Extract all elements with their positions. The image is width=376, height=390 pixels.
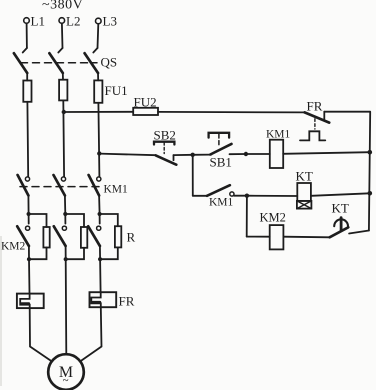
wire SB2 to node <box>174 154 193 156</box>
coil KM2 <box>270 225 284 249</box>
pushbutton SB1 <box>209 133 232 155</box>
wire KT contact to rail corner <box>349 231 369 234</box>
wire SB1 to node <box>230 153 246 155</box>
node rail row B <box>368 150 373 155</box>
svg-text:FR: FR <box>119 294 135 309</box>
coil KM1 <box>270 140 283 168</box>
wire FR3 to motor <box>80 307 102 361</box>
svg-text:FU1: FU1 <box>105 83 128 98</box>
wire middle phase through <box>65 259 68 354</box>
switch QS pole 2 <box>49 48 62 73</box>
QS linkage dashed <box>21 62 98 64</box>
wire node to KT coil <box>247 195 297 197</box>
wire KM2 coil to KT contact <box>283 236 329 239</box>
scan edge shading <box>0 236 2 386</box>
wire self-hold branch down <box>192 155 194 196</box>
wire right rail <box>369 112 370 231</box>
fuse FU1 pole 3 <box>94 80 102 102</box>
wire KM2-1 to rejoin <box>28 246 30 259</box>
wire FR to rail <box>324 111 370 113</box>
resistor branch 3 <box>100 214 122 259</box>
wire rejoin3 to FR heater <box>99 259 102 292</box>
svg-text:L1: L1 <box>31 13 45 28</box>
node rail row C <box>368 191 373 196</box>
wire KM1 coil to rail <box>283 152 370 154</box>
node L2 control tap <box>62 110 66 114</box>
contact FR normally closed <box>300 112 329 141</box>
wire L2 to QS <box>61 23 64 48</box>
node L3 control tap <box>97 151 101 155</box>
node branch top 1 <box>27 212 31 216</box>
thermal element FR phase 3 <box>90 292 117 307</box>
fuse FU2 <box>133 108 158 115</box>
svg-text:KT: KT <box>296 169 313 184</box>
wire node to SB1 <box>193 154 212 156</box>
svg-text:KM1: KM1 <box>104 183 129 195</box>
resistor branch 1 <box>29 214 50 259</box>
wire to KM1 aux contact <box>193 195 207 197</box>
svg-text:~: ~ <box>63 375 69 387</box>
wire L3 to QS <box>97 24 100 48</box>
node rejoin 3 <box>98 257 102 261</box>
terminal L3 <box>96 18 102 24</box>
contact KM2 main pole 3 <box>88 214 101 246</box>
resistor branch 2 <box>65 214 87 259</box>
node branch top 3 <box>98 212 102 216</box>
switch QS pole 1 <box>14 48 27 73</box>
svg-text:L2: L2 <box>66 13 80 28</box>
contact KT delayed NC <box>330 218 349 238</box>
wire KT coil to rail <box>311 193 370 196</box>
KM1 main linkage dashed <box>20 186 101 188</box>
node after SB2 <box>191 153 195 157</box>
wire row D branch down <box>246 196 248 237</box>
node before KM1 coil <box>244 152 248 156</box>
node row C <box>245 194 249 198</box>
wire KM1 aux to node <box>234 195 247 197</box>
motor M <box>48 354 84 390</box>
wire FU2 to FR contact <box>158 111 305 114</box>
contact KM1 main pole 3 <box>89 175 101 196</box>
contact KM1 auxiliary <box>207 185 234 196</box>
terminal L2 <box>59 18 65 24</box>
terminal L1 <box>24 18 30 24</box>
svg-text:SB2: SB2 <box>154 128 176 143</box>
switch QS pole 3 <box>85 48 98 73</box>
wire KM1-3 to node <box>98 196 101 215</box>
wire control row B to SB2 <box>99 154 156 156</box>
svg-text:L3: L3 <box>103 14 117 29</box>
wire FU1-1 to KM1 contact <box>26 102 29 177</box>
wire L1 to QS <box>26 23 28 48</box>
coil KT time relay <box>297 183 312 209</box>
contact KM1 main pole 2 <box>54 175 66 196</box>
wire FU1-3 to KM1 contact <box>98 103 99 177</box>
wire FR1 to motor <box>30 308 52 361</box>
svg-text:SB1: SB1 <box>210 155 232 170</box>
wire node to KM1 coil <box>246 153 270 155</box>
svg-text:R: R <box>127 230 136 245</box>
wire rejoin1 to FR heater <box>28 259 31 293</box>
fuse FU1 pole 1 <box>23 81 31 102</box>
fuse FU1 pole 2 <box>59 80 67 101</box>
wire KM2-2 to rejoin <box>65 246 67 259</box>
svg-text:KT: KT <box>332 201 349 216</box>
wire QS1 to FU1 <box>26 73 28 81</box>
svg-text:KM1: KM1 <box>209 197 234 209</box>
wire FU1-2 to KM1 contact <box>62 100 65 176</box>
thermal element FR phase 1 <box>17 294 44 309</box>
wire QS2 to FU1 <box>62 73 64 80</box>
wire KM2-3 to rejoin <box>99 246 101 259</box>
wire KM1-2 to node <box>64 196 66 215</box>
svg-text:FR: FR <box>307 99 323 114</box>
svg-text:~380V: ~380V <box>42 0 83 12</box>
contact KM2 main pole 1 <box>17 214 30 246</box>
contact KM2 main pole 2 <box>54 214 67 246</box>
node rejoin 2 <box>64 257 68 261</box>
svg-text:FU2: FU2 <box>134 95 157 110</box>
wire control row A to FU2 <box>64 111 133 113</box>
svg-text:KM1: KM1 <box>266 129 291 141</box>
wire QS3 to FU1 <box>97 73 99 80</box>
svg-text:QS: QS <box>101 55 118 70</box>
svg-text:KM2: KM2 <box>1 241 26 253</box>
node rejoin 1 <box>27 257 31 261</box>
pushbutton SB2 <box>154 142 176 165</box>
wire to KM2 coil <box>247 236 270 238</box>
contact KM1 main pole 1 <box>18 175 30 196</box>
wire KM1-1 to node <box>27 196 29 215</box>
node branch top 2 <box>63 212 67 216</box>
svg-text:KM2: KM2 <box>260 211 286 225</box>
